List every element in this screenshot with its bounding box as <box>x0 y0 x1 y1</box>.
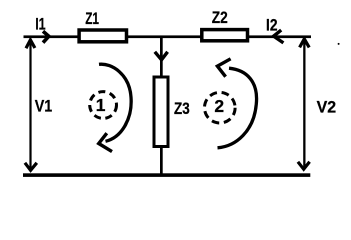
svg-text:I2: I2 <box>266 16 278 35</box>
svg-text:Z2: Z2 <box>212 8 228 27</box>
svg-text:Z1: Z1 <box>85 9 99 28</box>
svg-text:V2: V2 <box>317 97 337 116</box>
svg-text:2: 2 <box>214 96 224 116</box>
svg-text:I1: I1 <box>35 14 46 33</box>
svg-text:1: 1 <box>96 95 106 115</box>
svg-text:Z3: Z3 <box>174 99 190 118</box>
svg-text:V1: V1 <box>35 97 53 116</box>
